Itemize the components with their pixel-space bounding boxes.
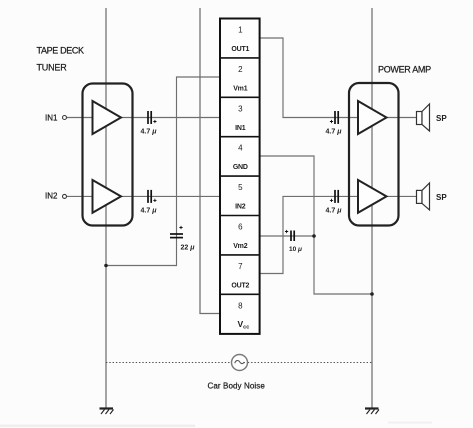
speaker SP1 [417,104,430,131]
wire Vm2 pin 6 through C4 to GND net [260,235,315,237]
wire GND pin 4 to right rail [260,156,373,294]
svg-text:OUT1: OUT1 [231,46,249,53]
IC U1 cell separators [221,58,259,294]
op-amp tuner A2 [93,180,122,213]
svg-text:SP: SP [436,114,447,123]
capacitor C2 4.7u lower-left [141,190,158,215]
svg-text:8: 8 [238,301,243,310]
svg-text:Vm2: Vm2 [233,243,247,250]
source AC car body noise [232,355,248,371]
wire right ground rail [371,8,373,408]
svg-text:SP: SP [436,193,447,202]
wire Vcc supply rail [200,8,220,314]
wire power amp1 output to speaker SP1 [387,117,417,119]
svg-text:Car Body Noise: Car Body Noise [208,382,266,391]
wire IN2 input to tuner amp [67,195,93,197]
scan artifact bottom edge [0,425,195,428]
wire tuner amp1 output to IC pin 3 IN1 [121,117,220,119]
capacitor C1 4.7u upper-left [141,111,158,136]
svg-text:4.7 μ: 4.7 μ [326,129,343,136]
svg-text:GND: GND [233,164,248,171]
svg-text:OUT2: OUT2 [231,282,249,289]
svg-text:IN2: IN2 [235,204,246,211]
wire OUT1 pin 1 to power amp input [260,38,358,118]
ground right chassis [365,409,379,415]
svg-text:4: 4 [238,144,243,153]
block power amp [349,83,399,226]
wire Vm1 pin 2 to C3 to left rail [106,77,220,266]
svg-text:IN1: IN1 [235,125,246,132]
node IN2 terminal [63,194,67,198]
svg-text:7: 7 [238,262,243,271]
svg-text:4.7 μ: 4.7 μ [141,129,158,136]
node IN1 terminal [63,116,67,120]
svg-text:TUNER: TUNER [37,63,68,73]
svg-text:Vm1: Vm1 [233,85,247,92]
node junction C4/GND net [312,234,316,238]
svg-text:10 μ: 10 μ [289,246,302,253]
wire tuner amp2 output to IC pin 5 IN2 [121,195,220,197]
node junction GND/right rail [370,292,374,296]
op-amp power A3 [358,101,387,134]
capacitor C6 4.7u lower-right [326,190,343,215]
wire power amp2 output to speaker SP2 [387,195,417,197]
svg-text:5: 5 [238,183,243,192]
op-amp power A4 [358,180,387,213]
wire dashed car-body-noise line [106,362,372,364]
svg-text:IN2: IN2 [45,192,58,201]
wire IN1 input to tuner amp [67,117,93,119]
ground left chassis [100,409,114,415]
wire OUT2 pin 7 to power amp input [260,196,358,273]
svg-text:22 μ: 22 μ [181,245,196,252]
svg-text:2: 2 [238,65,243,74]
svg-text:6: 6 [238,223,243,232]
IC U1 outline [220,19,260,334]
capacitor C3 22u [170,226,195,252]
svg-text:3: 3 [238,104,243,113]
speaker SP2 [417,183,430,210]
svg-text:TAPE DECK: TAPE DECK [37,46,85,56]
svg-text:4.7 μ: 4.7 μ [141,207,158,214]
capacitor C5 4.7u upper-right [326,111,343,136]
capacitor C4 10u [285,230,302,253]
svg-text:1: 1 [238,26,243,35]
wire left ground rail [105,8,107,408]
node junction Vm1/left rail [104,264,108,268]
svg-text:4.7 μ: 4.7 μ [326,207,343,214]
block tape deck / tuner [83,84,133,226]
op-amp tuner A1 [93,101,122,134]
svg-text:POWER AMP: POWER AMP [378,65,431,75]
svg-text:IN1: IN1 [45,114,58,123]
